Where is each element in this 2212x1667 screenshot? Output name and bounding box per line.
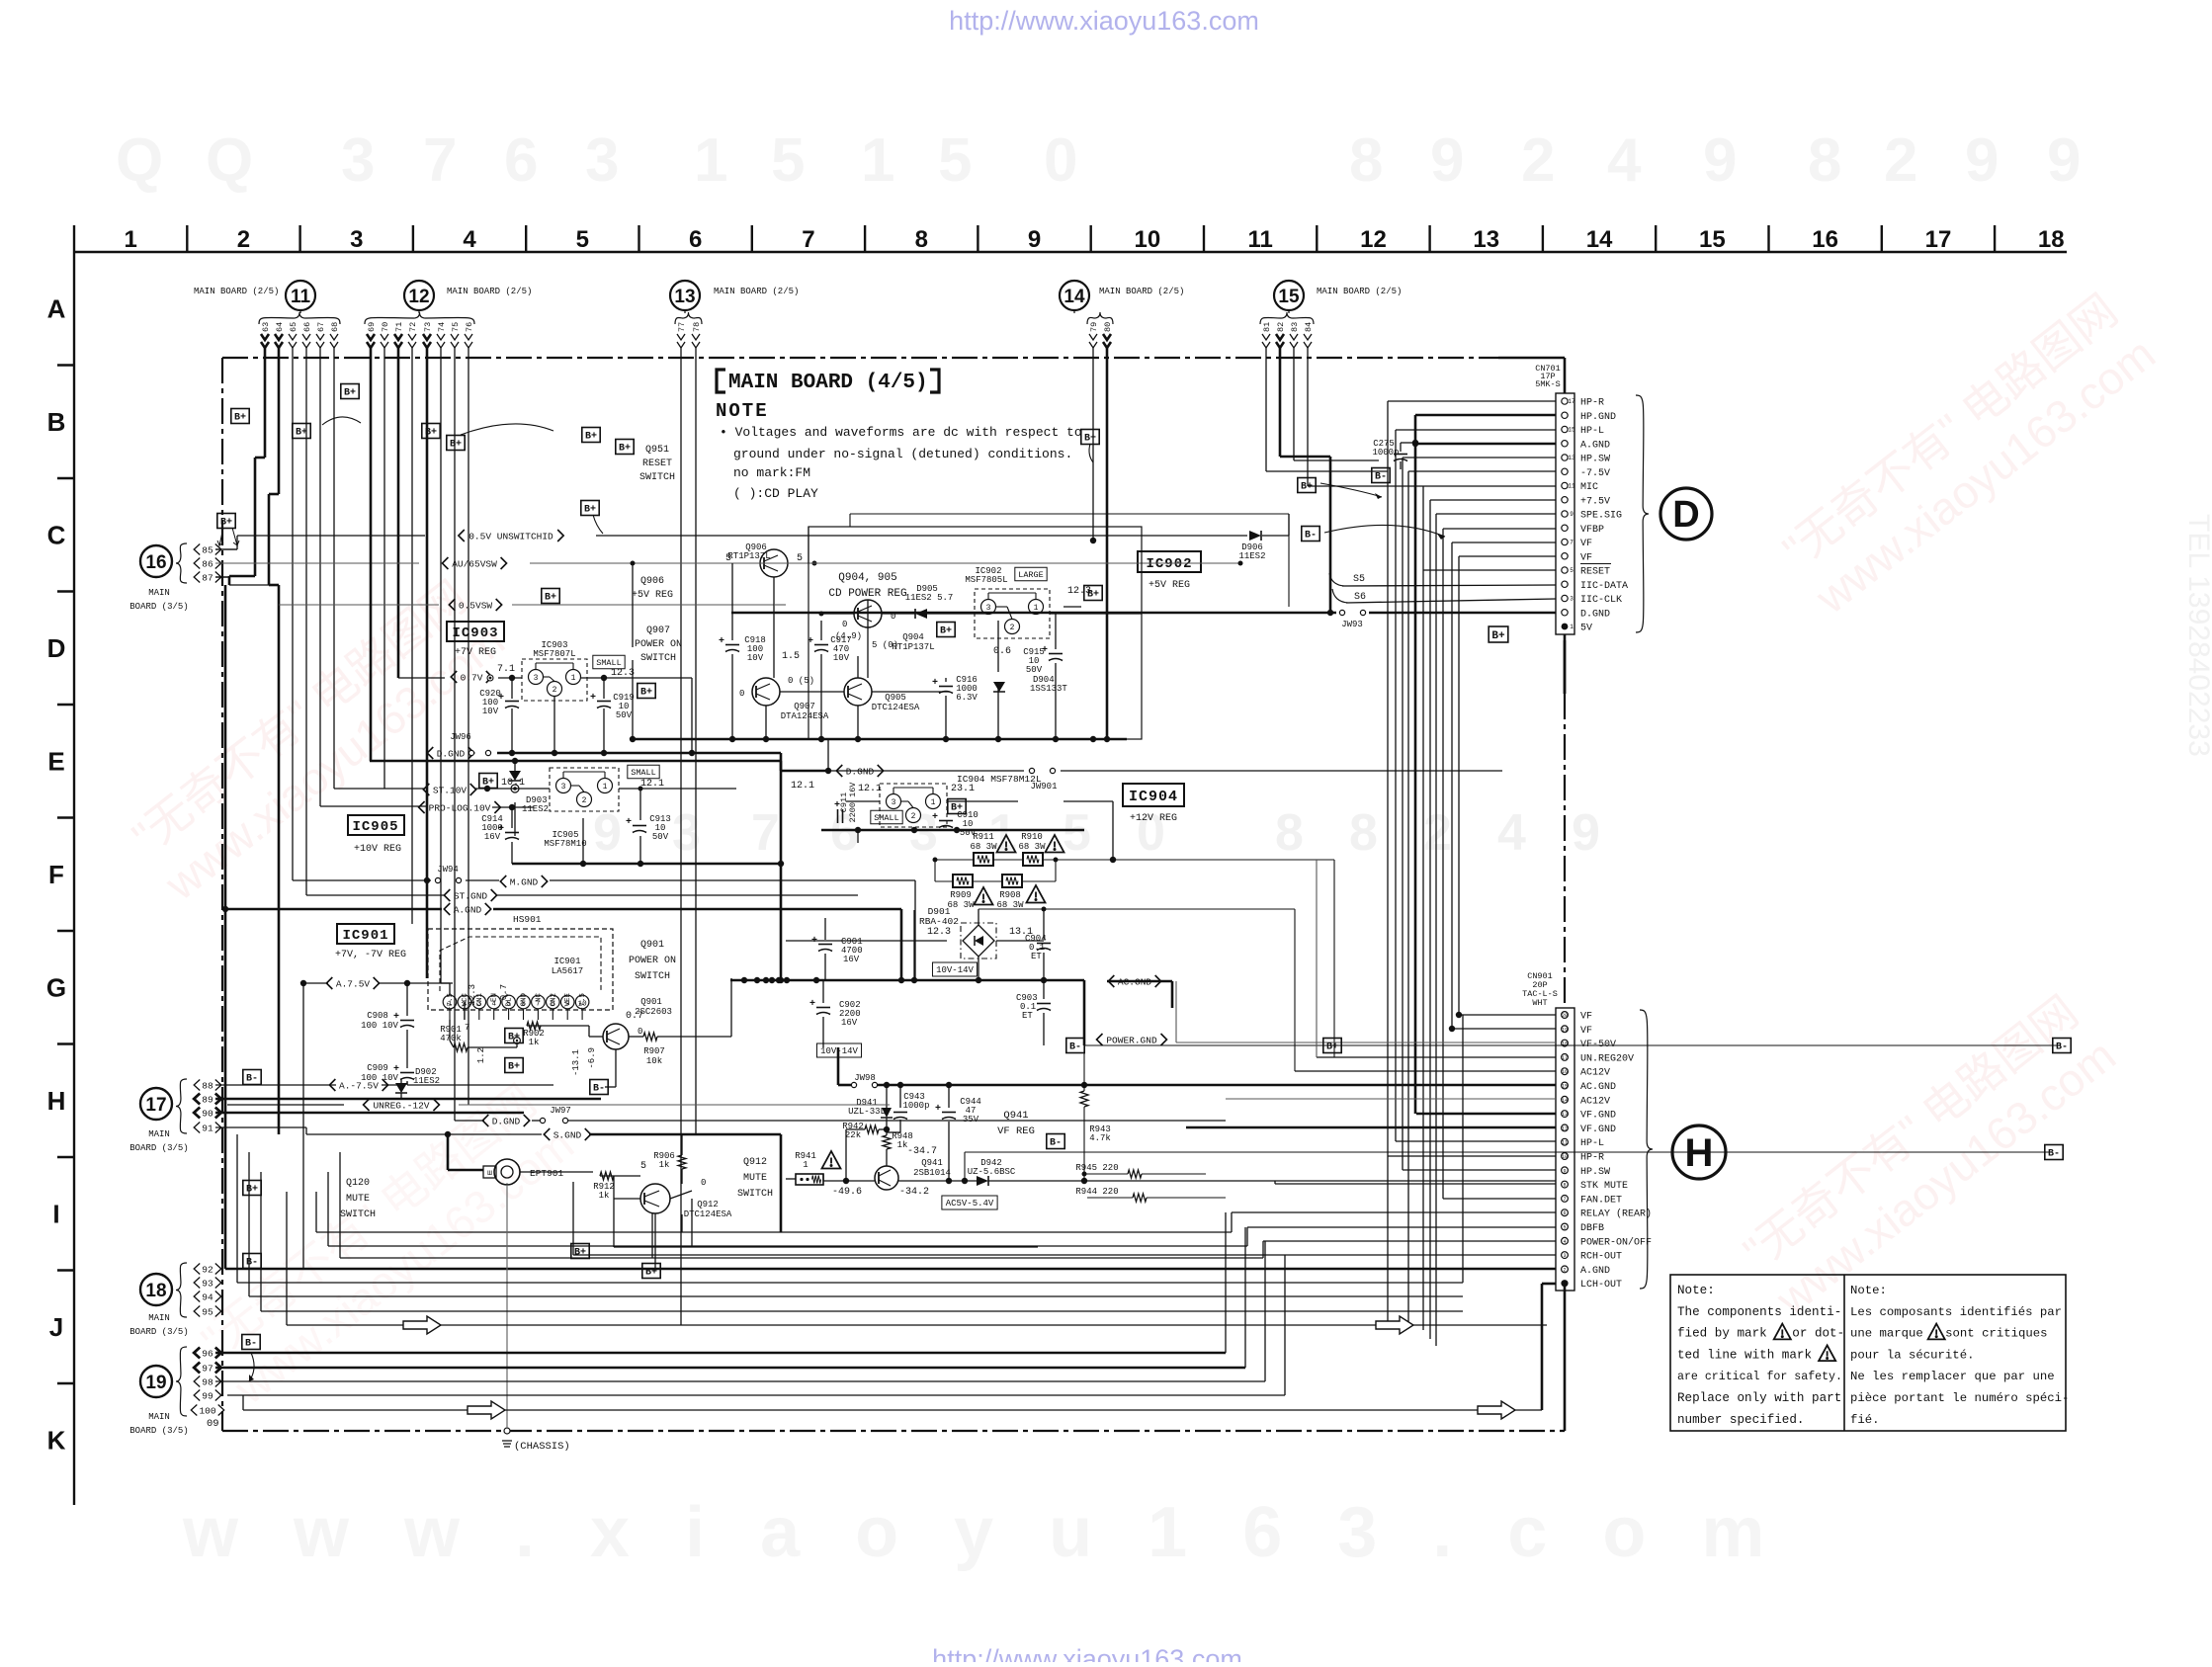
svg-text:89: 89 bbox=[202, 1094, 213, 1105]
svg-text:88: 88 bbox=[202, 1080, 213, 1091]
svg-text:B+: B+ bbox=[1087, 590, 1099, 601]
IC901 pin 7 bbox=[532, 995, 546, 1009]
svg-text:UN.REG20V: UN.REG20V bbox=[1580, 1053, 1634, 1064]
svg-text:18: 18 bbox=[2038, 226, 2065, 253]
svg-text:11ES2: 11ES2 bbox=[522, 804, 549, 814]
svg-text:JW901: JW901 bbox=[1030, 782, 1057, 792]
svg-text:14: 14 bbox=[1063, 287, 1085, 307]
svg-text:VF: VF bbox=[1580, 552, 1592, 563]
svg-text:3: 3 bbox=[341, 126, 375, 195]
CN901 pin 17 UN.REG20V bbox=[1562, 1054, 1569, 1061]
svg-text:DBFB: DBFB bbox=[1580, 1223, 1604, 1234]
connector group 18 to MAIN BOARD (3/5) bbox=[140, 1274, 172, 1305]
svg-text:MSF7807L: MSF7807L bbox=[533, 649, 575, 659]
wire: D.GND row to pin bbox=[731, 612, 1336, 615]
IC901 pin 3 bbox=[472, 995, 486, 1009]
wire: 87 to bus bbox=[215, 576, 229, 578]
svg-text:83: 83 bbox=[1290, 322, 1300, 332]
svg-text:Q912: Q912 bbox=[697, 1200, 719, 1209]
svg-text:ground under no-signal (detune: ground under no-signal (detuned) conditi… bbox=[733, 447, 1072, 461]
svg-text:97: 97 bbox=[202, 1363, 213, 1374]
svg-text:5: 5 bbox=[640, 1161, 646, 1172]
svg-text:3: 3 bbox=[350, 226, 363, 253]
svg-text:22k: 22k bbox=[845, 1130, 861, 1140]
IC901 pin 9 bbox=[560, 995, 574, 1009]
svg-text:65: 65 bbox=[289, 322, 298, 332]
svg-text:0: 0 bbox=[842, 620, 847, 629]
wire: B- y1058 bbox=[1084, 1044, 2061, 1046]
svg-text:+: + bbox=[834, 800, 840, 811]
wire: Q906 collector row bbox=[633, 562, 760, 564]
CN701 pin 11 MIC bbox=[1562, 482, 1568, 488]
svg-text:98: 98 bbox=[202, 1376, 213, 1387]
svg-text:+5V REG: +5V REG bbox=[632, 590, 673, 601]
svg-text:MUTE: MUTE bbox=[346, 1194, 370, 1205]
svg-text:3: 3 bbox=[534, 674, 539, 683]
svg-text:12.1: 12.1 bbox=[791, 781, 814, 792]
svg-text:17: 17 bbox=[1568, 398, 1575, 405]
svg-text:69: 69 bbox=[367, 322, 377, 332]
CN701 pin 14 A.GND bbox=[1562, 441, 1568, 447]
svg-text:CN2: CN2 bbox=[550, 993, 557, 1007]
svg-text:B-: B- bbox=[1305, 531, 1317, 542]
wire: top pin drops group 13 bbox=[680, 348, 682, 1325]
transistor Q912 DTC124ESA bbox=[640, 1184, 670, 1213]
svg-text:10V: 10V bbox=[747, 653, 764, 663]
svg-text:AC.GND: AC.GND bbox=[1580, 1082, 1616, 1093]
svg-text:0: 0 bbox=[701, 1178, 706, 1188]
svg-text:VF.GND: VF.GND bbox=[1580, 1111, 1616, 1122]
svg-text:16V: 16V bbox=[841, 1018, 858, 1028]
svg-text:5: 5 bbox=[938, 126, 972, 195]
IC901 pin 8 bbox=[547, 995, 560, 1009]
svg-text:90: 90 bbox=[202, 1108, 213, 1119]
svg-text:67: 67 bbox=[316, 322, 326, 332]
svg-text:10.1: 10.1 bbox=[501, 778, 525, 789]
svg-text:5: 5 bbox=[1563, 1225, 1566, 1231]
regulator IC905 MSF78M10 package bbox=[550, 768, 619, 811]
svg-text:IC903: IC903 bbox=[452, 625, 498, 641]
wire: top pin drops group 11 bbox=[264, 348, 267, 458]
svg-text:14: 14 bbox=[1562, 1098, 1568, 1104]
svg-text:7: 7 bbox=[423, 126, 457, 195]
svg-text:4: 4 bbox=[463, 226, 476, 253]
svg-text:11ES2 5.7: 11ES2 5.7 bbox=[905, 593, 954, 603]
svg-text:100: 100 bbox=[199, 1405, 215, 1416]
svg-text:23.1: 23.1 bbox=[951, 784, 975, 794]
svg-text:50V: 50V bbox=[1026, 665, 1043, 675]
wire: B- y1166 bbox=[965, 1151, 2051, 1153]
svg-text:A.GND: A.GND bbox=[1580, 1266, 1610, 1277]
bus: D.GND thick y770 bbox=[370, 760, 781, 763]
wire: R911/R910 row y870 bbox=[935, 859, 974, 861]
svg-text:11: 11 bbox=[1247, 226, 1272, 253]
svg-text:5: 5 bbox=[576, 226, 589, 253]
svg-text:une marque: une marque bbox=[1850, 1327, 1923, 1341]
svg-text:D.GND: D.GND bbox=[846, 766, 875, 777]
svg-text:Q941: Q941 bbox=[921, 1158, 943, 1168]
CN901 pin 13 VF.GND bbox=[1562, 1111, 1569, 1118]
svg-text:3: 3 bbox=[585, 126, 619, 195]
svg-text:fié.: fié. bbox=[1850, 1413, 1880, 1427]
svg-text:2: 2 bbox=[237, 226, 250, 253]
circle H bbox=[1672, 1125, 1726, 1179]
svg-text:+7.5V: +7.5V bbox=[1580, 496, 1610, 507]
svg-text:ST.10V: ST.10V bbox=[433, 785, 468, 795]
svg-text:5 (0): 5 (0) bbox=[872, 640, 898, 650]
svg-text:80: 80 bbox=[1103, 322, 1113, 332]
svg-text:B+: B+ bbox=[640, 688, 652, 699]
svg-text:4: 4 bbox=[1607, 126, 1642, 195]
wire: mute switch area bbox=[520, 1171, 593, 1173]
svg-text:UZL-33L: UZL-33L bbox=[848, 1107, 886, 1117]
svg-text:POWER-ON/OFF: POWER-ON/OFF bbox=[1580, 1236, 1652, 1248]
svg-text:5V: 5V bbox=[1580, 624, 1592, 634]
svg-text:MAIN BOARD (2/5): MAIN BOARD (2/5) bbox=[1317, 287, 1402, 296]
main board border bottom bbox=[222, 1430, 1565, 1432]
svg-text:74: 74 bbox=[437, 322, 447, 332]
svg-text:17: 17 bbox=[1925, 226, 1952, 253]
svg-text:+: + bbox=[393, 1064, 399, 1075]
wire: R943 vertical bbox=[1083, 1045, 1085, 1091]
B- arc group19 bbox=[249, 1353, 254, 1381]
svg-text:The components identi-: The components identi- bbox=[1677, 1305, 1841, 1319]
svg-text:73: 73 bbox=[423, 322, 433, 332]
svg-text:Q941: Q941 bbox=[1003, 1110, 1028, 1122]
svg-text:WHT: WHT bbox=[1532, 998, 1547, 1008]
svg-text:BOARD (3/5): BOARD (3/5) bbox=[129, 1143, 188, 1153]
svg-text:B-: B- bbox=[2056, 1042, 2068, 1053]
svg-text:IC901: IC901 bbox=[342, 928, 388, 944]
svg-text:1: 1 bbox=[694, 126, 727, 195]
svg-text:1k: 1k bbox=[529, 1038, 540, 1047]
svg-text:19: 19 bbox=[1562, 1027, 1568, 1033]
svg-text:CN1: CN1 bbox=[476, 993, 484, 1007]
connector group 17 to MAIN BOARD (3/5) bbox=[140, 1088, 172, 1120]
wires: feeders to RELAY/DBFB rows bbox=[681, 1214, 683, 1232]
svg-text:B+: B+ bbox=[508, 1033, 520, 1043]
svg-text:D.GND: D.GND bbox=[1580, 609, 1610, 620]
IC901 pin 10 bbox=[575, 995, 589, 1009]
svg-text:+10V REG: +10V REG bbox=[354, 844, 401, 855]
svg-text:68: 68 bbox=[330, 322, 340, 332]
B- labels left area bbox=[243, 1070, 261, 1085]
svg-text:LARGE: LARGE bbox=[1018, 570, 1044, 580]
svg-text:AU/65VSW: AU/65VSW bbox=[452, 558, 497, 569]
svg-text:12: 12 bbox=[1562, 1125, 1568, 1131]
svg-text:TEL 13928402233: TEL 13928402233 bbox=[2182, 514, 2212, 757]
diode D904 1SS133T bbox=[993, 682, 1005, 692]
capacitor C902 bbox=[816, 1007, 830, 1009]
svg-text:7: 7 bbox=[802, 226, 814, 253]
svg-text:B+: B+ bbox=[450, 440, 462, 451]
CN701 pin 8 VFBP bbox=[1562, 525, 1568, 531]
svg-text:POWER ON: POWER ON bbox=[629, 956, 676, 966]
transistor Q901 2SC2603 bbox=[603, 1024, 629, 1049]
transistor Q906 RT1P137L bbox=[760, 549, 788, 577]
resistor R948 1k bbox=[883, 1135, 891, 1149]
B+ label near 5V bbox=[1489, 626, 1508, 642]
svg-text:NOTE: NOTE bbox=[716, 400, 769, 422]
wire: UNREG row bbox=[227, 1104, 344, 1106]
wire: IC905 out bbox=[619, 788, 640, 790]
svg-text:B+: B+ bbox=[508, 1062, 520, 1073]
bus: thick y840 IC904 bbox=[821, 829, 1084, 832]
svg-text:SWITCH: SWITCH bbox=[737, 1189, 773, 1200]
svg-text:VFBP: VFBP bbox=[1580, 525, 1604, 536]
svg-text:IIC-DATA: IIC-DATA bbox=[1580, 581, 1628, 592]
svg-text:+: + bbox=[932, 678, 938, 689]
svg-text:K: K bbox=[47, 1425, 66, 1455]
svg-text:SPE.SIG: SPE.SIG bbox=[1580, 511, 1622, 522]
svg-text:10V: 10V bbox=[833, 653, 850, 663]
svg-text:11: 11 bbox=[1562, 1140, 1568, 1146]
CN701 pin 10 +7.5V bbox=[1562, 497, 1568, 503]
svg-text:3: 3 bbox=[561, 783, 566, 792]
svg-text:1: 1 bbox=[124, 226, 136, 253]
wire: B+ IC902 out bbox=[1050, 613, 1142, 615]
CN901 pin 12 VF.GND bbox=[1562, 1125, 1569, 1131]
svg-text:D: D bbox=[47, 633, 66, 663]
diode D906 11ES2 bbox=[1249, 531, 1261, 541]
svg-text:85: 85 bbox=[202, 544, 213, 555]
IC901 pin 4 bbox=[487, 995, 501, 1009]
svg-text:95: 95 bbox=[202, 1306, 213, 1317]
resistor R908 68 3W bbox=[1002, 875, 1022, 887]
svg-text:HP.SW: HP.SW bbox=[1580, 1167, 1610, 1178]
svg-text:RT1P137L: RT1P137L bbox=[727, 551, 770, 561]
svg-text:5: 5 bbox=[771, 126, 805, 195]
svg-text:B+: B+ bbox=[1326, 1042, 1338, 1053]
curved arc arrows near connector bbox=[1320, 483, 1382, 497]
capacitor C913 bbox=[633, 825, 646, 827]
main board border right (connector side) bbox=[1564, 358, 1567, 393]
svg-text:B+: B+ bbox=[584, 505, 596, 516]
svg-text:A: A bbox=[47, 293, 66, 323]
svg-text:4.7k: 4.7k bbox=[1089, 1133, 1111, 1143]
svg-text:C909: C909 bbox=[367, 1063, 388, 1073]
svg-text:pour la sécurité.: pour la sécurité. bbox=[1850, 1348, 1974, 1362]
svg-text:17: 17 bbox=[145, 1095, 166, 1116]
CN901 pin 20 VF bbox=[1562, 1012, 1569, 1019]
svg-text:10V: 10V bbox=[482, 707, 499, 716]
svg-text:ш: ш bbox=[487, 1169, 492, 1178]
svg-text:50V: 50V bbox=[652, 832, 669, 842]
svg-text:5: 5 bbox=[797, 553, 803, 564]
svg-text:JW98: JW98 bbox=[854, 1073, 876, 1083]
svg-text:1SS133T: 1SS133T bbox=[1030, 684, 1067, 694]
svg-text:R908: R908 bbox=[999, 890, 1021, 900]
svg-text:7: 7 bbox=[1563, 1197, 1566, 1203]
svg-text:9: 9 bbox=[1703, 126, 1737, 195]
B+ pointer row B/C bbox=[581, 501, 599, 516]
svg-text:Q906: Q906 bbox=[640, 576, 664, 587]
svg-text:B+: B+ bbox=[1301, 482, 1313, 493]
svg-text:2: 2 bbox=[1423, 804, 1452, 862]
CN901 pin 18 VF-50V bbox=[1562, 1040, 1569, 1046]
CN901 pin 8 STK MUTE bbox=[1562, 1181, 1569, 1188]
wire: D.GND bus to JW96 bbox=[229, 584, 269, 586]
svg-text:B+: B+ bbox=[940, 626, 952, 637]
svg-text:20: 20 bbox=[1562, 1013, 1568, 1019]
svg-text:D: D bbox=[1672, 494, 1699, 536]
svg-text:or dot-: or dot- bbox=[1792, 1327, 1844, 1341]
svg-text:Q912: Q912 bbox=[743, 1157, 767, 1168]
svg-text:0.7V: 0.7V bbox=[461, 672, 483, 683]
svg-text:12: 12 bbox=[408, 287, 429, 307]
svg-text:MAIN: MAIN bbox=[148, 1313, 170, 1323]
svg-text:VEE: VEE bbox=[564, 993, 572, 1007]
svg-text:15: 15 bbox=[1562, 1084, 1568, 1090]
svg-text:B+: B+ bbox=[1491, 630, 1505, 642]
svg-text:Ne les remplacer que par une: Ne les remplacer que par une bbox=[1850, 1370, 2055, 1383]
svg-text:B+: B+ bbox=[344, 388, 356, 399]
svg-text:9: 9 bbox=[1028, 226, 1041, 253]
svg-text:-13.1: -13.1 bbox=[571, 1049, 581, 1076]
svg-text:UNREG.-12V: UNREG.-12V bbox=[373, 1100, 429, 1111]
wire: AC.GND corner bbox=[1107, 980, 1172, 983]
svg-text:8: 8 bbox=[1349, 804, 1378, 862]
svg-text:16: 16 bbox=[1562, 1069, 1568, 1075]
svg-text:Q: Q bbox=[206, 126, 253, 195]
svg-text:+7V REG: +7V REG bbox=[455, 647, 496, 658]
svg-text:2SC2603: 2SC2603 bbox=[635, 1007, 672, 1017]
svg-text:5: 5 bbox=[1063, 804, 1091, 862]
wire: 0.5VSW row C bbox=[279, 604, 439, 606]
wire: CD power reg box bbox=[808, 527, 1142, 739]
svg-text:8: 8 bbox=[1349, 126, 1383, 195]
svg-text:IC902: IC902 bbox=[1146, 556, 1192, 572]
svg-text:5: 5 bbox=[725, 553, 731, 564]
B- label bbox=[590, 1080, 608, 1095]
IC905 label bbox=[348, 815, 404, 835]
svg-text:B-: B- bbox=[2048, 1149, 2060, 1160]
B+ label right of IC903 bbox=[638, 684, 655, 699]
wire: IC904 in/out bbox=[846, 800, 880, 802]
svg-text:MSF7805L: MSF7805L bbox=[965, 575, 1007, 585]
CN701 pin 4 IIC-DATA bbox=[1562, 581, 1568, 587]
wire: D.GND JW96 row bbox=[497, 752, 781, 755]
B+ label left of C275 bbox=[1298, 478, 1316, 493]
svg-text:50V: 50V bbox=[616, 710, 633, 720]
jumper JW901 bbox=[1029, 768, 1034, 773]
svg-text:E: E bbox=[47, 746, 64, 776]
wire: top pin drops group 15 bbox=[1265, 348, 1267, 471]
svg-text:1k: 1k bbox=[599, 1191, 610, 1201]
svg-text:15: 15 bbox=[1699, 226, 1726, 253]
transistor Q941 2SB1014 bbox=[875, 1166, 898, 1190]
svg-text:Q901: Q901 bbox=[640, 940, 664, 951]
svg-text:7: 7 bbox=[1570, 540, 1574, 546]
svg-text:RELAY (REAR): RELAY (REAR) bbox=[1580, 1209, 1652, 1220]
svg-text:-7.5V: -7.5V bbox=[1580, 468, 1610, 479]
svg-text:R945 220: R945 220 bbox=[1075, 1163, 1118, 1173]
svg-text:1: 1 bbox=[571, 674, 576, 683]
svg-text:IC901: IC901 bbox=[553, 957, 580, 966]
wire: Q906 vertical bbox=[632, 563, 634, 647]
svg-text:HP-L: HP-L bbox=[1580, 426, 1604, 437]
svg-text:84: 84 bbox=[1304, 322, 1314, 332]
svg-text:MAIN BOARD (2/5): MAIN BOARD (2/5) bbox=[447, 287, 532, 296]
svg-text:-34.7: -34.7 bbox=[907, 1146, 937, 1157]
jumper JW93 bbox=[1339, 610, 1344, 615]
svg-text:S6: S6 bbox=[1354, 592, 1366, 603]
svg-text:-34.2: -34.2 bbox=[899, 1187, 929, 1198]
connector group 16 to MAIN BOARD (3/5) bbox=[140, 545, 172, 577]
svg-text:+12V REG: +12V REG bbox=[1130, 813, 1177, 824]
B- label under C275 bbox=[1372, 468, 1390, 483]
svg-text:0.5VSW: 0.5VSW bbox=[459, 600, 493, 611]
CN701 pin 7 VF bbox=[1562, 539, 1568, 544]
svg-text:18: 18 bbox=[145, 1281, 166, 1301]
svg-text:13: 13 bbox=[1473, 226, 1499, 253]
svg-text:POWER.GND: POWER.GND bbox=[1106, 1035, 1157, 1045]
svg-text:+: + bbox=[1042, 645, 1048, 656]
svg-text:16: 16 bbox=[1812, 226, 1838, 253]
main board border left bbox=[221, 358, 223, 1431]
svg-text:11: 11 bbox=[1568, 483, 1575, 490]
svg-text:77: 77 bbox=[677, 322, 687, 332]
svg-text:8: 8 bbox=[1808, 126, 1841, 195]
svg-text:0.7: 0.7 bbox=[499, 984, 509, 1000]
svg-text:HP.SW: HP.SW bbox=[1580, 455, 1610, 465]
svg-text:VF: VF bbox=[1580, 539, 1592, 549]
AC5V-5.4V box bbox=[942, 1196, 997, 1209]
svg-text:C908: C908 bbox=[367, 1011, 388, 1021]
CN901 pin 11 HP-L bbox=[1562, 1138, 1569, 1145]
wire: left group 16 lines bbox=[215, 548, 237, 550]
svg-text:R944 220: R944 220 bbox=[1075, 1187, 1118, 1197]
svg-text:2SB1014: 2SB1014 bbox=[913, 1168, 951, 1178]
svg-text:92: 92 bbox=[202, 1264, 213, 1275]
5V dash-dot drop to CN901 bbox=[1564, 640, 1567, 694]
wire: R945/R944 rows bbox=[1084, 1173, 1128, 1175]
svg-text:(CHASSIS): (CHASSIS) bbox=[514, 1441, 570, 1453]
watermark pink diagonals bbox=[120, 569, 514, 910]
B- labels right bbox=[1066, 1039, 1084, 1053]
svg-text:13: 13 bbox=[1562, 1112, 1568, 1118]
wire: ST.10V bbox=[334, 788, 424, 790]
svg-text:H: H bbox=[47, 1086, 66, 1116]
bus: JW98 row y1098 thick bbox=[838, 1084, 851, 1087]
svg-text:68 3W: 68 3W bbox=[947, 900, 975, 910]
svg-text:STK MUTE: STK MUTE bbox=[1580, 1181, 1628, 1192]
svg-text:79: 79 bbox=[1089, 322, 1099, 332]
svg-text:number specified.: number specified. bbox=[1677, 1413, 1804, 1427]
svg-text:D.GND: D.GND bbox=[492, 1116, 521, 1126]
svg-text:VF REG: VF REG bbox=[997, 1125, 1035, 1137]
svg-text:J: J bbox=[49, 1312, 63, 1342]
svg-text:3: 3 bbox=[1570, 596, 1574, 603]
wire: bridge D901 bbox=[786, 940, 947, 942]
svg-text:5: 5 bbox=[1570, 567, 1574, 574]
svg-text:Q907: Q907 bbox=[794, 702, 815, 711]
svg-text:MAIN BOARD (2/5): MAIN BOARD (2/5) bbox=[194, 287, 279, 296]
circle D bbox=[1660, 488, 1712, 540]
svg-text:PRO-LOG.10V: PRO-LOG.10V bbox=[429, 802, 491, 813]
svg-text:10: 10 bbox=[1134, 226, 1160, 253]
svg-text:-49.6: -49.6 bbox=[832, 1187, 862, 1198]
svg-text:91: 91 bbox=[202, 1123, 213, 1133]
CN901 pin 2 A.GND bbox=[1562, 1266, 1569, 1273]
IC903 label bbox=[447, 622, 504, 641]
svg-text:MUTE: MUTE bbox=[743, 1173, 767, 1184]
svg-text:+: + bbox=[719, 636, 724, 647]
CN901 pin 5 DBFB bbox=[1562, 1223, 1569, 1230]
bus: thick y992 bbox=[730, 979, 1084, 982]
wire: EPT901 drop bbox=[506, 1185, 508, 1428]
B+ label near ST.10V bbox=[479, 774, 497, 789]
